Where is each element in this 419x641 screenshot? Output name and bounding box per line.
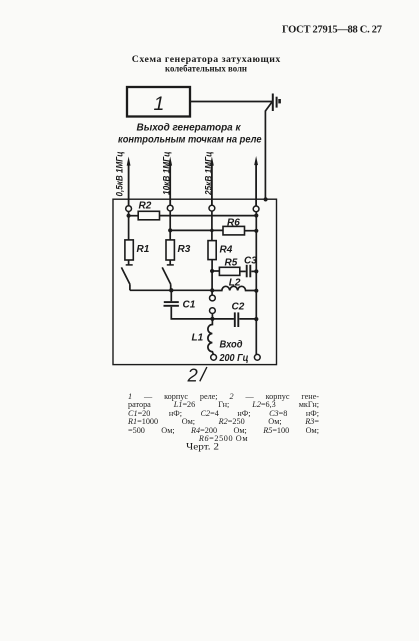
wire t1 down	[128, 212, 130, 240]
figure caption block	[128, 393, 319, 444]
svg-text:2: 2	[187, 365, 199, 386]
node rail B / t2	[168, 228, 172, 232]
svg-text:R2: R2	[139, 201, 152, 212]
leader slash for 2	[200, 367, 207, 381]
arrowhead 3	[210, 157, 214, 166]
resistor R1	[125, 240, 133, 260]
wire block1 to chassis	[190, 101, 272, 103]
terminal t3	[209, 205, 215, 211]
node: chassis line joins case	[264, 197, 268, 201]
junction dots	[127, 213, 259, 321]
connector pin lower	[210, 308, 216, 314]
capacitor C1	[164, 301, 179, 303]
capacitor C3	[246, 265, 248, 278]
svg-text:Схема генератора затухающих: Схема генератора затухающих	[132, 54, 281, 65]
component labels	[137, 201, 258, 364]
svg-text:R6: R6	[227, 217, 240, 228]
svg-text:C2: C2	[232, 302, 245, 313]
arrowhead 2	[168, 157, 172, 166]
switch S1 fixed contact	[126, 264, 133, 266]
svg-text:10кВ 1МГц: 10кВ 1МГц	[161, 152, 172, 196]
svg-text:Вход: Вход	[220, 340, 243, 351]
rail A left segment	[129, 215, 139, 217]
svg-text:колебательных волн: колебательных волн	[165, 64, 248, 75]
svg-text:C3: C3	[244, 255, 257, 266]
switch S2 blade	[162, 267, 171, 284]
R5 branch left wire	[212, 270, 219, 272]
svg-text:Черт. 2: Черт. 2	[186, 442, 219, 452]
rail B right segment	[245, 230, 257, 232]
svg-text:200 Гц: 200 Гц	[219, 353, 249, 364]
connector pin upper	[210, 295, 216, 301]
wire t3 down	[211, 211, 213, 241]
node rail A / right bus	[254, 213, 258, 217]
svg-text:R1: R1	[137, 244, 150, 255]
terminal t2	[167, 205, 173, 211]
connector break circles	[210, 295, 261, 360]
svg-text:C1: C1	[183, 300, 196, 311]
svg-text:R3: R3	[178, 244, 191, 255]
node rail B / t3 line	[210, 229, 214, 233]
input terminal left	[211, 354, 217, 360]
node R5 branch / t3 line	[210, 269, 214, 273]
output arrow 0.5kV	[128, 162, 130, 206]
wire R5 to C3	[240, 270, 246, 272]
svg-text:R5: R5	[225, 257, 238, 268]
wire chassis down to generator case	[265, 102, 271, 111]
switch S2 fixed contact	[167, 264, 174, 266]
rail B left segment	[170, 229, 223, 231]
wire C3 to right bus	[251, 270, 256, 272]
node rail D / L1	[210, 317, 214, 321]
wire C1 bottom to rail D	[171, 307, 212, 319]
terminal t4	[253, 206, 259, 212]
block 1 (relay body)	[127, 87, 190, 117]
inductor L1	[208, 319, 214, 355]
node rail B / right bus	[254, 229, 258, 233]
rail C	[130, 289, 212, 291]
node C2 / right bus	[254, 317, 258, 321]
svg-text:R4: R4	[220, 245, 233, 256]
chassis ground symbol (corpus, pointing right)	[272, 94, 274, 112]
svg-text:ГОСТ 27915—88 С. 27: ГОСТ 27915—88 С. 27	[282, 25, 382, 36]
wire C1 top stub	[170, 290, 172, 301]
switch S1 lower stub	[129, 284, 131, 290]
output arrow 25kV	[211, 162, 213, 205]
switch S2 lower stub	[170, 284, 172, 290]
output arrow right (unlabeled)	[255, 162, 257, 207]
wire R3 to switch	[169, 260, 171, 265]
arrowhead 4	[254, 156, 258, 165]
node L2 left	[210, 288, 214, 292]
output arrow 10kV	[169, 162, 171, 205]
resistor R2	[138, 211, 159, 220]
terminal circles on case top	[126, 205, 259, 212]
generator case box 2	[113, 199, 277, 364]
svg-text:0,5кВ 1МГц: 0,5кВ 1МГц	[114, 152, 125, 197]
arrowhead 1	[127, 157, 131, 166]
input terminal right	[254, 354, 260, 360]
connector upper circle stub	[211, 314, 213, 319]
capacitor C2	[234, 312, 236, 327]
wire R4 down	[211, 260, 213, 296]
svg-text:контрольным точкам на реле: контрольным точкам на реле	[118, 134, 262, 145]
node C3 / right bus	[254, 269, 258, 273]
resistor R3	[166, 240, 174, 260]
node L2 / right bus	[254, 289, 258, 293]
terminal t1	[126, 206, 132, 212]
svg-text:1: 1	[154, 93, 165, 115]
svg-text:L2: L2	[229, 277, 241, 288]
wire C2 to right bus	[239, 318, 256, 320]
svg-text:L1: L1	[192, 332, 204, 343]
wire t4 down (right bus)	[255, 212, 257, 355]
rail D to C2	[212, 318, 234, 320]
svg-text:Выход генератора к: Выход генератора к	[137, 123, 242, 134]
resistor R5	[219, 267, 239, 275]
resistor R4	[208, 241, 216, 260]
wire t2 down	[169, 211, 171, 240]
node rail A / t1	[127, 214, 131, 218]
node rail C / C1	[169, 288, 173, 292]
svg-text:25кВ 1МГц: 25кВ 1МГц	[204, 152, 215, 196]
switch S1 blade	[121, 267, 129, 284]
resistor R6	[223, 226, 245, 235]
inductor L2	[212, 286, 256, 290]
wire R1 to switch	[128, 260, 130, 265]
rail A right segment	[160, 215, 257, 217]
